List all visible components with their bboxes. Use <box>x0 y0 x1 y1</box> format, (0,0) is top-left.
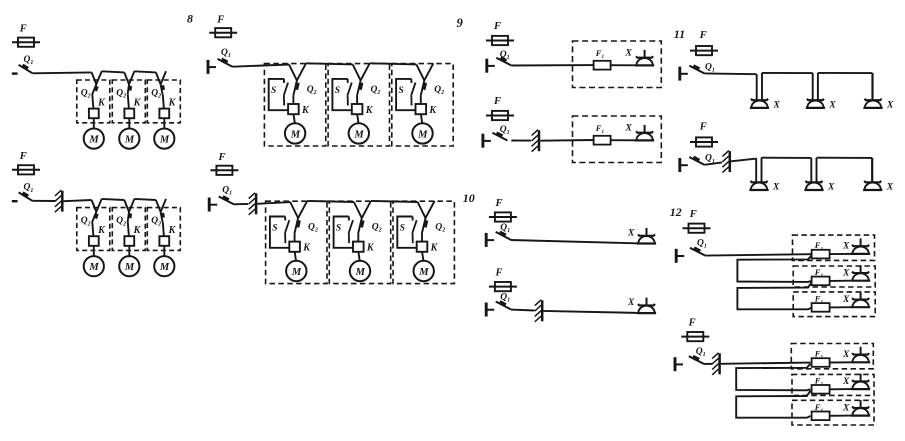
fuse F1 (C2) <box>594 136 611 145</box>
wire (between branches 1-2, A2) <box>102 199 125 200</box>
wire (blade to coil, branch 3, A2) <box>163 222 164 236</box>
wire (coil to motor, branch 2, B2) <box>358 252 359 261</box>
enclosure (dashed starter box, branch 1, B2) <box>266 201 327 283</box>
lamp X (C2) <box>635 125 654 140</box>
motor M (branch 3, A2) <box>154 256 174 276</box>
wire (blade to coil, branch 1, B2) <box>294 233 296 241</box>
motor M (branch 1, A2) <box>84 256 104 276</box>
contactor contact Q2 blade (branch 2, A1) <box>128 84 131 94</box>
switch Q1 (circuit E2) <box>680 157 705 172</box>
svg-text:S: S <box>336 224 341 234</box>
label Q1 (circuit D1) <box>500 223 510 234</box>
svg-text:M: M <box>88 262 99 273</box>
svg-text:F: F <box>699 30 707 41</box>
wire (V-dip into box, branch 1, A1) <box>92 71 102 84</box>
label F1 (box 2, F1grp) <box>814 267 824 279</box>
svg-text:9: 9 <box>457 16 464 30</box>
enclosure (dashed starter box, branch 1, B1) <box>264 64 325 146</box>
label F (fuse, circuit B2) <box>218 152 226 163</box>
fuse F1 (box 1, F2grp) <box>812 358 830 367</box>
motor M (branch 2, A1) <box>119 129 139 149</box>
lamp X (box 1, F1grp) <box>851 238 870 254</box>
fuse F (circuit B2) <box>210 166 238 175</box>
motor M (branch 1, B1) <box>285 123 305 143</box>
button S blade (branch 3, B1) <box>411 83 415 106</box>
wire (drop to lamp 3, E1) <box>871 73 873 100</box>
fuse F (circuit F2grp) <box>681 332 709 341</box>
svg-text:K: K <box>133 225 142 236</box>
enclosure (dashed luminaire box, C1) <box>573 41 662 88</box>
label F (fuse, circuit B1) <box>216 15 224 26</box>
label Q1 (circuit C2) <box>500 125 510 136</box>
button S blade (branch 3, B2) <box>412 220 416 243</box>
label F (fuse, circuit D2) <box>495 268 503 279</box>
wire (V-dip into box, branch 2, B1) <box>353 63 370 80</box>
wire (fuse to lamp, box 3, F1grp) <box>830 306 851 308</box>
wire (riser from lamp 1, E2) <box>761 158 763 182</box>
svg-text:X: X <box>627 229 635 239</box>
switch Q1 (circuit A2) <box>12 192 33 201</box>
relay coil K (branch 1, B1) <box>288 104 299 114</box>
contactor contact Q2 blade (branch 3, B2) <box>422 218 427 233</box>
wire (switch to hatch, C2) <box>511 140 531 142</box>
enclosure (dashed luminaire box, box 1, F1grp) <box>793 235 875 260</box>
svg-text:M: M <box>124 135 135 146</box>
label K (branch 1, B2) <box>302 243 311 254</box>
relay coil K (branch 2, B1) <box>352 104 363 114</box>
wire (V-dip into box, branch 1, B1) <box>289 63 306 80</box>
label X (box 3, F1grp) <box>842 295 850 305</box>
wire (blade to coil, branch 3, B1) <box>420 96 422 104</box>
wire (between branches 1-2, B2) <box>307 201 354 202</box>
wire (fuse to lamp, box 2, F1grp) <box>830 280 851 282</box>
label Q2 (branch 2, A1) <box>116 89 126 100</box>
svg-text:M: M <box>290 129 301 140</box>
label K (branch 3, A1) <box>168 97 177 108</box>
enclosure (dashed starter box, branch 1, A2) <box>77 208 110 251</box>
wire (blade to coil, branch 2, B2) <box>357 233 359 241</box>
wire (switch to hatch, E2) <box>704 162 722 164</box>
lamp X (D2) <box>637 298 656 314</box>
svg-text:K: K <box>430 243 439 254</box>
svg-text:M: M <box>88 135 99 146</box>
motor M (branch 2, A2) <box>119 256 139 276</box>
wire (switch to hatch, A2) <box>32 200 55 202</box>
svg-text:X: X <box>842 403 850 413</box>
wire (feed to box 1, F2grp) <box>721 363 811 364</box>
svg-text:X: X <box>886 100 894 110</box>
button S bracket wire (branch 3, B1) <box>396 79 415 110</box>
wire (loop feed to box 3, F1grp) <box>737 282 811 309</box>
relay coil K (branch 1, A2) <box>89 236 99 246</box>
contactor contact Q2 blade (branch 3, A1) <box>161 84 164 94</box>
label Q1 (circuit E2) <box>705 154 715 165</box>
label S (branch 2, B2) <box>336 224 341 234</box>
svg-text:S: S <box>398 86 403 96</box>
label F1 (C1) <box>595 48 605 60</box>
switch Q1 (circuit D1) <box>486 232 511 247</box>
label Q2 (branch 2, B1) <box>371 85 381 96</box>
fuse F (circuit A2) <box>12 165 40 174</box>
svg-text:X: X <box>886 182 894 192</box>
button S blade (branch 1, B1) <box>284 83 288 106</box>
svg-text:X: X <box>827 182 835 192</box>
wire (switch to drop 1, E1) <box>704 72 756 75</box>
label F1 (C2) <box>595 123 605 135</box>
label Q2 (branch 1, A2) <box>81 216 91 227</box>
svg-text:M: M <box>418 267 429 278</box>
fuse F (circuit E1) <box>690 46 718 55</box>
switch Q1 (circuit C2) <box>483 133 508 148</box>
label S (branch 1, B2) <box>272 224 277 234</box>
svg-text:F: F <box>19 24 27 35</box>
wire (hatch to branches, A2) <box>64 200 92 201</box>
enclosure (dashed luminaire box, box 2, F1grp) <box>793 266 875 287</box>
svg-text:F: F <box>216 15 224 26</box>
enclosure (dashed starter box, branch 2, B1) <box>328 64 389 146</box>
relay coil K (branch 3, A1) <box>159 109 169 119</box>
label X (D2) <box>627 298 635 308</box>
svg-text:K: K <box>168 225 177 236</box>
label Q2 (branch 1, B1) <box>307 85 317 96</box>
fuse F (circuit C1) <box>486 36 514 45</box>
fuse F (circuit F1grp) <box>683 224 711 233</box>
label F1 (box 1, F2grp) <box>814 349 824 361</box>
label F1 (box 1, F1grp) <box>814 240 824 252</box>
wire (lamp2 to lamp3 span, E1) <box>818 72 873 74</box>
wire (riser from lamp 1, E1) <box>761 73 763 100</box>
contactor contact Q2 blade (branch 2, B1) <box>357 80 362 95</box>
wire (between branches 2-3, B1) <box>370 63 417 64</box>
wire (fuse to lamp, box 1, F1grp) <box>830 253 851 255</box>
label X (box 1, F2grp) <box>842 350 850 360</box>
motor M (branch 2, B1) <box>349 123 369 143</box>
label X (lamp 2, E2) <box>827 182 835 192</box>
wire (blade to coil, branch 1, B1) <box>292 96 294 104</box>
relay coil K (branch 2, A2) <box>124 236 134 246</box>
wire (coil to motor, branch 3, B2) <box>422 252 423 261</box>
label K (branch 1, A2) <box>97 225 106 236</box>
relay coil K (branch 3, B1) <box>416 104 427 114</box>
label X (box 2, F1grp) <box>842 268 850 278</box>
enclosure (dashed starter box, branch 3, B2) <box>393 201 454 283</box>
label Q1 (circuit A2) <box>24 183 34 194</box>
motor M (branch 3, B1) <box>412 123 432 143</box>
wire (coil to motor, branch 3, A1) <box>163 118 165 128</box>
label X (lamp 3, E2) <box>886 182 894 192</box>
fuse F (circuit D1) <box>489 212 517 221</box>
enclosure (dashed starter box, branch 3, A2) <box>147 208 180 251</box>
switch Q1 (circuit B2) <box>209 197 234 212</box>
wire (lamp1 to lamp2 span, E1) <box>762 72 813 74</box>
label X (lamp 1, E2) <box>772 182 780 192</box>
svg-text:X: X <box>842 350 850 360</box>
switch Q1 (circuit E1) <box>680 66 705 81</box>
enclosure (dashed starter box, branch 1, A1) <box>77 80 110 123</box>
svg-text:K: K <box>168 97 177 108</box>
switch Q1 (circuit C1) <box>487 58 512 73</box>
enclosure (dashed starter box, branch 3, B1) <box>392 64 453 146</box>
svg-text:S: S <box>335 86 340 96</box>
label F (fuse, circuit C2) <box>493 96 501 107</box>
wire (V-dip into box, branch 2, B2) <box>354 201 371 218</box>
enclosure (dashed starter box, branch 3, A1) <box>147 80 180 123</box>
enclosure (dashed starter box, branch 2, A2) <box>112 208 145 251</box>
grounded-neutral hatch symbol (D2) <box>535 300 542 322</box>
enclosure (dashed starter box, branch 2, A1) <box>112 80 145 123</box>
label Q1 (circuit B2) <box>222 185 232 196</box>
label X (lamp 3, E1) <box>886 100 894 110</box>
button S blade (branch 2, B2) <box>349 220 353 243</box>
svg-text:X: X <box>828 100 836 110</box>
lamp X 3 (E1) <box>863 99 882 108</box>
wire (between branches 2-3, B2) <box>371 201 418 202</box>
switch Q1 (circuit A1) <box>12 65 33 74</box>
wire (blade to coil, branch 2, A1) <box>128 95 129 109</box>
label F (fuse, circuit A2) <box>19 151 27 162</box>
svg-text:M: M <box>159 262 170 273</box>
contactor contact Q2 blade (branch 2, A2) <box>128 212 131 222</box>
svg-text:M: M <box>353 129 364 140</box>
wire (lamp1 to lamp2 span, E2) <box>762 157 812 159</box>
label X (lamp 2, E1) <box>828 100 836 110</box>
label K (branch 3, A2) <box>168 225 177 236</box>
fuse F (circuit B1) <box>209 28 237 37</box>
wire (fuse to lamp, box 2, F2grp) <box>830 388 851 390</box>
label S (branch 3, B1) <box>398 86 403 96</box>
wire (loop feed to box 2, F1grp) <box>737 255 811 282</box>
wire (drop to lamp 1, E2) <box>755 158 757 182</box>
fuse F (circuit E2) <box>690 137 718 146</box>
svg-text:X: X <box>772 182 780 192</box>
label Q2 (branch 2, B2) <box>372 222 382 233</box>
wire (switch to branches, A1) <box>32 71 91 74</box>
wire (coil to motor, branch 2, A1) <box>128 118 130 128</box>
contactor contact Q2 blade (branch 3, A2) <box>161 212 164 222</box>
svg-text:F: F <box>689 209 697 220</box>
label S (branch 2, B1) <box>335 86 340 96</box>
wire (between branches 2-3, A1) <box>134 71 156 72</box>
svg-text:F: F <box>688 317 696 328</box>
fuse F1 (box 2, F2grp) <box>812 385 830 394</box>
button S bracket wire (branch 1, B2) <box>270 217 289 248</box>
label F1 (box 3, F2grp) <box>814 402 824 414</box>
svg-text:X: X <box>842 268 850 278</box>
label F (fuse, circuit E2) <box>699 121 707 132</box>
wire (blade to coil, branch 1, A1) <box>92 95 93 109</box>
lamp X (D1) <box>637 228 656 244</box>
switch Q1 (circuit D2) <box>486 302 511 317</box>
wire (coil to motor, branch 3, A2) <box>163 246 165 256</box>
svg-text:F: F <box>699 121 707 132</box>
wire (fuse to lamp, box 1, F2grp) <box>830 361 851 363</box>
contactor contact Q2 blade (branch 1, B2) <box>295 218 300 233</box>
wire (lamp2 to lamp3 span, E2) <box>817 157 873 159</box>
svg-text:K: K <box>301 105 310 116</box>
switch Q1 (circuit F1grp) <box>676 248 705 263</box>
wire (coil to motor, branch 1, B1) <box>294 114 295 123</box>
svg-text:K: K <box>133 97 142 108</box>
label Q2 (branch 1, B2) <box>308 222 318 233</box>
label F1 (box 3, F1grp) <box>814 293 824 305</box>
label Q1 (circuit D2) <box>500 292 510 303</box>
label X (box 3, F2grp) <box>842 403 850 413</box>
label F (fuse, circuit D1) <box>495 198 503 209</box>
svg-text:K: K <box>97 97 106 108</box>
label Q1 (circuit F2grp) <box>696 347 706 358</box>
svg-text:X: X <box>625 123 633 133</box>
label F (fuse, circuit A1) <box>19 24 27 35</box>
wire (drop to lamp 1, E1) <box>756 74 758 100</box>
lamp X 1 (E2) <box>749 181 768 190</box>
wire (V-dip into box, branch 2, A2) <box>124 199 134 212</box>
svg-text:M: M <box>159 135 170 146</box>
switch Q1 (circuit F2grp) <box>675 356 704 371</box>
label Q1 (circuit A1) <box>24 55 34 66</box>
lamp X 2 (E1) <box>806 99 825 108</box>
label Q2 (branch 3, A2) <box>151 216 161 227</box>
wire (blade to coil, branch 3, B2) <box>421 233 423 241</box>
svg-text:F: F <box>218 152 226 163</box>
wire (between branches 1-2, B1) <box>306 63 353 64</box>
svg-text:S: S <box>400 224 405 234</box>
label Q1 (circuit C1) <box>500 50 510 61</box>
wire (V-dip into box, branch 3, A2) <box>156 199 166 212</box>
svg-text:S: S <box>271 86 276 96</box>
svg-text:12: 12 <box>670 205 682 219</box>
wire (between branches 2-3, A2) <box>134 199 156 200</box>
label K (branch 2, B2) <box>366 243 375 254</box>
wire (V-dip into box, branch 2, A1) <box>124 71 134 84</box>
label F1 (box 2, F2grp) <box>814 375 824 387</box>
lamp X 2 (E2) <box>804 181 823 190</box>
svg-text:X: X <box>842 377 850 387</box>
lamp X 1 (E1) <box>750 99 769 108</box>
enclosure (dashed starter box, branch 2, B2) <box>329 201 390 283</box>
motor M (branch 3, A1) <box>154 129 174 149</box>
svg-text:11: 11 <box>674 27 685 41</box>
contactor contact Q2 blade (branch 1, B1) <box>293 80 298 95</box>
label Q2 (branch 3, A1) <box>151 89 161 100</box>
enclosure (dashed luminaire box, box 3, F2grp) <box>792 400 874 425</box>
wire (coil to motor, branch 1, A1) <box>93 118 95 128</box>
svg-text:M: M <box>291 267 302 278</box>
motor M (branch 2, B2) <box>350 261 370 281</box>
svg-text:K: K <box>302 243 311 254</box>
lamp X 3 (E2) <box>863 181 882 190</box>
wire (drop to lamp 3, E2) <box>871 158 873 182</box>
button S bracket wire (branch 2, B2) <box>334 217 353 248</box>
wire (drop to lamp 2, E1) <box>812 73 814 100</box>
wire (coil to motor, branch 2, B1) <box>357 114 358 123</box>
wire (fuse to lamp, box 3, F2grp) <box>830 415 851 417</box>
contactor contact Q2 blade (branch 2, B2) <box>358 218 363 233</box>
wire (blade to coil, branch 2, A2) <box>128 222 129 236</box>
label K (branch 2, B1) <box>365 105 374 116</box>
label Q1 (circuit E1) <box>705 62 715 73</box>
label K (branch 1, B1) <box>301 105 310 116</box>
wire (riser from lamp 2, E1) <box>817 73 819 100</box>
wire (hatch to drop 1, E2) <box>731 159 757 162</box>
label F (fuse, circuit F2grp) <box>688 317 696 328</box>
button S bracket wire (branch 3, B2) <box>397 217 416 248</box>
svg-text:S: S <box>272 224 277 234</box>
wire (switch to box, C1) <box>511 64 593 66</box>
button S blade (branch 1, B2) <box>285 220 289 243</box>
label K (branch 1, A1) <box>97 97 106 108</box>
figure number 9 <box>457 16 464 30</box>
svg-text:F: F <box>495 198 503 209</box>
button S bracket wire (branch 1, B1) <box>269 79 288 110</box>
label X (D1) <box>627 229 635 239</box>
svg-text:K: K <box>428 105 437 116</box>
wire (V-dip into box, branch 3, B2) <box>418 201 435 218</box>
label X (box 2, F2grp) <box>842 377 850 387</box>
enclosure (dashed luminaire box, box 2, F2grp) <box>792 374 874 395</box>
label Q1 (circuit F1grp) <box>697 239 707 250</box>
lamp X (box 1, F2grp) <box>851 347 870 363</box>
wire (hatch to box, C2) <box>540 139 593 142</box>
wire (blade to coil, branch 3, A1) <box>163 95 164 109</box>
fuse F1 (box 3, F1grp) <box>812 303 830 312</box>
wire (switch to hatch, F2grp) <box>704 363 712 365</box>
wire (blade to coil, branch 1, A2) <box>92 222 93 236</box>
wire (fuse to lamp, C1) <box>611 64 636 66</box>
label Q2 (branch 3, B1) <box>434 85 444 96</box>
svg-text:X: X <box>773 100 781 110</box>
label F (fuse, circuit C1) <box>493 21 501 32</box>
lamp X (box 3, F1grp) <box>851 292 870 308</box>
svg-text:X: X <box>842 242 850 252</box>
label K (branch 3, B1) <box>428 105 437 116</box>
figure number 10 <box>463 191 475 205</box>
enclosure (dashed luminaire box, box 1, F2grp) <box>791 344 873 369</box>
label X (C1) <box>625 48 633 58</box>
wire (V-dip into box, branch 3, B1) <box>416 63 433 80</box>
motor M (branch 1, A1) <box>84 129 104 149</box>
label Q2 (branch 2, A2) <box>116 216 126 227</box>
label X (box 1, F1grp) <box>842 242 850 252</box>
label Q2 (branch 1, A1) <box>81 89 91 100</box>
wire (switch to hatch, B2) <box>234 203 249 205</box>
relay coil K (branch 2, B2) <box>353 242 364 252</box>
wire (feed to box 1, F1grp) <box>705 254 811 255</box>
fuse F1 (C1) <box>594 61 611 70</box>
wire (riser from lamp 2, E2) <box>816 158 818 182</box>
wire (switch to branches, B1) <box>233 65 290 67</box>
svg-text:M: M <box>355 267 366 278</box>
wire (coil to motor, branch 2, A2) <box>128 246 130 256</box>
wire (V-dip into box, branch 3, A1) <box>156 71 166 84</box>
fuse F (circuit C2) <box>486 111 514 120</box>
label S (branch 1, B1) <box>271 86 276 96</box>
contactor contact Q2 blade (branch 1, A2) <box>92 212 97 222</box>
grounded-neutral hatch symbol (A2) <box>55 190 62 212</box>
wire (coil to motor, branch 1, B2) <box>295 252 296 261</box>
switch Q1 (circuit B1) <box>208 59 233 74</box>
figure number 11 <box>674 27 685 41</box>
svg-text:M: M <box>417 129 428 140</box>
svg-text:X: X <box>625 48 633 58</box>
wire (hatch to lamp, D2) <box>544 311 638 313</box>
wire (drop to lamp 2, E2) <box>810 158 812 182</box>
wire (blade to coil, branch 2, B1) <box>356 96 358 104</box>
label Q2 (branch 3, B2) <box>435 222 445 233</box>
button S bracket wire (branch 2, B1) <box>332 79 351 110</box>
fuse F1 (box 1, F1grp) <box>812 250 830 259</box>
label F (fuse, circuit E1) <box>699 30 707 41</box>
svg-text:8: 8 <box>187 12 193 26</box>
